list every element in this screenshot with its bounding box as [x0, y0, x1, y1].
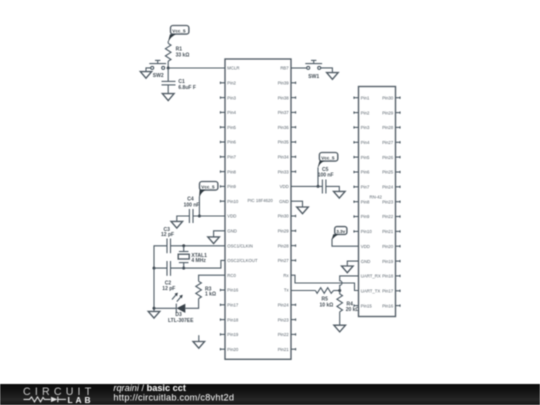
svg-text:Pin21: Pin21: [382, 229, 394, 234]
svg-text:http://circuitlab.com/c8vht2d: http://circuitlab.com/c8vht2d: [113, 392, 234, 402]
svg-text:Pin6: Pin6: [361, 170, 370, 175]
svg-text:VDD: VDD: [280, 184, 289, 189]
wire Vcc_5 to VDD wire: [198, 197, 200, 217]
svg-text:Pin24: Pin24: [382, 185, 394, 190]
svg-text:Pin10: Pin10: [227, 199, 239, 204]
svg-text:Pin8: Pin8: [227, 169, 236, 174]
capacitor C2: [162, 261, 175, 292]
svg-text:Pin18: Pin18: [382, 274, 394, 279]
svg-text:Pin5: Pin5: [227, 125, 236, 130]
node junction VDD/C5: [317, 185, 320, 188]
wire R3 to RC0: [199, 275, 225, 281]
pin Pin33: [278, 169, 296, 174]
pin Pin39: [278, 81, 296, 86]
svg-text:Pin22: Pin22: [278, 332, 290, 337]
crystal XTAL1: [178, 246, 207, 268]
pin Pin21: [382, 229, 400, 234]
supply label 3.3v: [332, 227, 347, 240]
svg-text:Pin37: Pin37: [278, 110, 290, 115]
pin Pin10: [354, 229, 372, 234]
supply label Vcc_5 (C5): [318, 153, 338, 168]
svg-text:Vcc_5: Vcc_5: [201, 184, 215, 189]
svg-text:Pin5: Pin5: [361, 155, 370, 160]
svg-text:Pin9: Pin9: [361, 214, 370, 219]
pin Pin27: [278, 258, 296, 263]
pin Pin3: [220, 95, 236, 100]
pin Pin16: [382, 303, 400, 308]
pin Pin7: [354, 185, 370, 190]
wire LED to R3: [185, 299, 198, 309]
pin Pin20: [382, 244, 400, 249]
pin Pin17: [220, 303, 239, 308]
svg-text:MCLR: MCLR: [227, 66, 239, 71]
svg-text:Pin30: Pin30: [278, 214, 290, 219]
pin Pin19: [382, 259, 400, 264]
pin Pin15: [354, 303, 372, 308]
svg-text:Pin34: Pin34: [278, 155, 290, 160]
pin Pin5: [220, 125, 236, 130]
pin Pin28: [382, 125, 400, 130]
wire VDD right pin to C5: [291, 185, 322, 187]
pin Pin8: [354, 199, 370, 204]
pin Pin16: [220, 288, 239, 293]
svg-text:UART_TX: UART_TX: [361, 289, 381, 294]
pin Pin37: [278, 110, 296, 115]
wire Vcc_5 down to VDD wire: [317, 168, 319, 187]
wire PIC Tx to R5: [291, 290, 315, 292]
IC U1 PIC 18F4620 body: [225, 59, 291, 359]
svg-text:Pin4: Pin4: [361, 140, 370, 145]
resistor R1: [165, 43, 189, 61]
svg-text:Pin36: Pin36: [278, 125, 290, 130]
node junction OSC1/XTAL: [182, 244, 185, 247]
svg-text:Pin26: Pin26: [382, 155, 394, 160]
svg-text:Pin38: Pin38: [278, 95, 290, 100]
pin Pin2: [220, 81, 236, 86]
svg-text:Pin28: Pin28: [278, 243, 290, 248]
svg-text:Pin17: Pin17: [227, 303, 239, 308]
svg-text:Pin25: Pin25: [382, 170, 394, 175]
pin Pin19: [220, 332, 239, 337]
svg-text:Pin24: Pin24: [278, 303, 290, 308]
node junction MCLR: [167, 67, 170, 70]
resistor R4: [337, 291, 360, 314]
switch SW2: [149, 60, 168, 79]
capacitor C5: [318, 167, 334, 194]
svg-text:12 pF: 12 pF: [162, 286, 175, 292]
svg-text:100 nF: 100 nF: [318, 173, 334, 179]
svg-text:GND: GND: [279, 199, 289, 204]
svg-text:Pin22: Pin22: [382, 214, 394, 219]
pin Pin30: [382, 95, 400, 100]
svg-text:Pin10: Pin10: [361, 229, 373, 234]
pin Pin24: [278, 303, 296, 308]
wire R5 to node: [334, 290, 340, 292]
svg-text:6.8uF F: 6.8uF F: [178, 85, 196, 91]
svg-text:Pin6: Pin6: [227, 140, 236, 145]
node junction OSC2/XTAL: [182, 267, 185, 270]
wire junction to MCLR pin: [168, 67, 225, 69]
pin Pin24: [382, 185, 400, 190]
node junction C2/bus: [153, 267, 156, 270]
svg-text:Pin2: Pin2: [361, 110, 370, 115]
capacitor C1: [162, 79, 196, 91]
wire junction to C1: [167, 68, 169, 81]
ground (R4): [334, 325, 346, 332]
wire VDD pin to C4: [193, 215, 225, 217]
pin Pin17: [382, 289, 400, 294]
wire Vcc_5 to R1: [167, 41, 169, 43]
svg-text:Pin30: Pin30: [382, 95, 394, 100]
svg-text:33 kΩ: 33 kΩ: [176, 53, 190, 59]
wire bus down to LED junction and ground: [153, 268, 155, 311]
svg-text:Vcc_5: Vcc_5: [321, 155, 335, 160]
pin Pin18: [220, 317, 239, 322]
svg-text:Pin7: Pin7: [361, 185, 370, 190]
svg-text:100 nF: 100 nF: [184, 202, 200, 208]
pin Pin22: [278, 332, 296, 337]
svg-text:Pin29: Pin29: [382, 110, 394, 115]
logo squiggle resistor-diode: [24, 397, 67, 403]
pin Pin4: [354, 140, 370, 145]
svg-text:RN-42: RN-42: [370, 195, 383, 200]
wire C5 to ground: [326, 186, 339, 191]
svg-text:Pin33: Pin33: [278, 169, 290, 174]
wire RN42 GND to ground: [347, 261, 358, 266]
wire R1 to junction: [167, 61, 169, 68]
pin Pin3: [354, 125, 370, 130]
node junction VDD/C4: [198, 215, 201, 218]
pin Pin6: [220, 140, 236, 145]
svg-text:Pin3: Pin3: [361, 125, 370, 130]
svg-text:VDD: VDD: [361, 244, 370, 249]
wire R4 to ground: [339, 312, 341, 325]
supply label Vcc_5 (C4): [199, 182, 218, 197]
pin Pin22: [382, 214, 400, 219]
svg-text:Pin8: Pin8: [361, 199, 370, 204]
svg-text:PIC 18F4620: PIC 18F4620: [248, 198, 274, 203]
pin Pin21: [278, 347, 296, 352]
resistor R3: [196, 281, 216, 298]
wire SW2 to ground: [146, 68, 151, 72]
pin Pin1: [354, 95, 370, 100]
svg-text:RC0: RC0: [227, 273, 236, 278]
pin Pin23: [278, 317, 296, 322]
switch SW1: [291, 60, 322, 80]
svg-text:UART_RX: UART_RX: [361, 274, 381, 279]
svg-text:Pin21: Pin21: [278, 347, 290, 352]
svg-text:LAB: LAB: [68, 395, 94, 405]
svg-text:12 pF: 12 pF: [161, 232, 174, 238]
pin Pin10: [220, 199, 239, 204]
svg-text:Pin4: Pin4: [227, 110, 236, 115]
ground (SW2): [140, 72, 151, 79]
ground (bus): [148, 311, 160, 318]
svg-text:3.3v: 3.3v: [336, 229, 345, 234]
pin Pin7: [220, 155, 236, 160]
svg-text:Pin19: Pin19: [382, 259, 394, 264]
svg-text:Pin19: Pin19: [227, 332, 239, 337]
pin Pin30: [278, 214, 296, 219]
LED D3: [168, 293, 194, 324]
ground (RN42): [342, 266, 354, 273]
node junction bus/LED: [153, 307, 156, 310]
svg-text:Pin15: Pin15: [361, 303, 373, 308]
pin Pin4: [220, 110, 236, 115]
ground (PIC right GND): [297, 207, 309, 214]
svg-text:1 kΩ: 1 kΩ: [205, 292, 216, 298]
pin Pin18: [382, 274, 400, 279]
wire C4 to ground: [177, 216, 190, 221]
svg-text:Pin27: Pin27: [382, 140, 394, 145]
pin Pin36: [278, 125, 296, 130]
ground (SW1): [327, 73, 339, 80]
svg-text:Vcc_5: Vcc_5: [172, 28, 186, 33]
pin Pin25: [382, 170, 400, 175]
svg-text:Pin20: Pin20: [382, 244, 394, 249]
wire 3.3v to RN42 VDD: [332, 239, 359, 246]
pin Pin9: [354, 214, 370, 219]
svg-text:OSC2/CLKOUT: OSC2/CLKOUT: [227, 258, 258, 263]
svg-text:20 kΩ: 20 kΩ: [346, 307, 360, 313]
pin Pin20: [220, 347, 239, 352]
pin Pin27: [382, 140, 400, 145]
svg-text:Pin1: Pin1: [361, 95, 370, 100]
pin Pin5: [354, 155, 370, 160]
ground (C1): [162, 94, 174, 101]
svg-text:GND: GND: [227, 229, 237, 234]
svg-text:RB7: RB7: [280, 66, 289, 71]
footer bar: [0, 384, 540, 405]
ground (floating): [193, 335, 205, 348]
wire OSC1 to C3 and XTAL: [154, 246, 225, 268]
IC U2 RN-42 body: [359, 87, 396, 317]
pin Pin38: [278, 95, 296, 100]
pin Pin29: [382, 110, 400, 115]
svg-text:Pin39: Pin39: [278, 81, 290, 86]
wire C1 to ground: [167, 85, 169, 94]
svg-text:Pin16: Pin16: [382, 303, 394, 308]
wire bus to LED cathode: [154, 307, 176, 309]
supply label Vcc_5 (top-left): [168, 26, 189, 42]
svg-text:Pin23: Pin23: [278, 317, 290, 322]
pin Pin2: [354, 110, 370, 115]
svg-text:Pin3: Pin3: [227, 95, 236, 100]
pin Pin8: [220, 169, 236, 174]
pin Pin28: [278, 243, 296, 248]
wire SW1 to ground: [321, 68, 333, 73]
capacitor C3: [161, 227, 174, 253]
svg-text:4 MHz: 4 MHz: [191, 258, 206, 264]
wire PIC Rx to RN42 UART_TX: [291, 275, 359, 290]
wire OSC2 run with jog: [154, 260, 225, 268]
svg-text:Pin7: Pin7: [227, 155, 236, 160]
svg-text:Pin18: Pin18: [227, 317, 239, 322]
svg-text:Pin16: Pin16: [227, 288, 239, 293]
svg-text:Rx: Rx: [283, 273, 289, 278]
pin Pin6: [354, 170, 370, 175]
svg-text:OSC1/CLKIN: OSC1/CLKIN: [227, 243, 253, 248]
pin Pin9: [220, 184, 236, 189]
ground (C5): [334, 191, 346, 198]
svg-text:Pin2: Pin2: [227, 81, 236, 86]
wire UART_RX with hop over Rx wire: [340, 276, 359, 291]
svg-text:Pin23: Pin23: [382, 199, 394, 204]
svg-text:Pin20: Pin20: [227, 347, 239, 352]
node junction divider: [338, 289, 341, 292]
svg-text:Pin29: Pin29: [278, 229, 290, 234]
svg-text:Tx: Tx: [284, 288, 290, 293]
pin Pin34: [278, 155, 296, 160]
svg-text:SW2: SW2: [153, 73, 164, 79]
svg-text:LTL-307EE: LTL-307EE: [168, 318, 194, 324]
pin Pin29: [278, 229, 296, 234]
svg-text:Pin9: Pin9: [227, 184, 236, 189]
pin Pin35: [278, 140, 296, 145]
ground (C4): [171, 221, 183, 228]
ground (PIC left GND): [208, 237, 220, 244]
capacitor C4: [184, 197, 200, 223]
svg-text:Pin28: Pin28: [382, 125, 394, 130]
svg-text:Pin35: Pin35: [278, 140, 290, 145]
pin Pin23: [382, 199, 400, 204]
svg-text:SW1: SW1: [308, 74, 319, 80]
svg-text:10 kΩ: 10 kΩ: [320, 303, 334, 309]
wire GND left pin to ground: [214, 231, 225, 237]
svg-text:VDD: VDD: [227, 214, 236, 219]
svg-text:Pin27: Pin27: [278, 258, 290, 263]
svg-text:GND: GND: [361, 259, 371, 264]
svg-text:Pin17: Pin17: [382, 289, 394, 294]
resistor R5: [315, 288, 333, 309]
pin Pin26: [382, 155, 400, 160]
wire GND right pin to ground: [291, 201, 303, 207]
